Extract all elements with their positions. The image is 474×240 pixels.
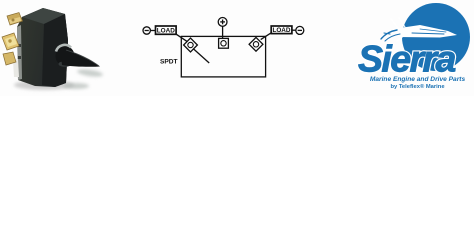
battery positive terminal (+) [218,18,227,27]
wire: left terminal to left load [151,30,156,32]
svg-text:LOAD: LOAD [157,28,175,35]
logo: white sterndrive sketch inside globe [391,18,457,41]
terminal A (left diamond terminal of switch) [184,38,198,52]
svg-text:SPDT: SPDT [160,59,178,66]
photo: left edge highlight strip of housing [17,25,22,80]
battery negative terminal (left) [143,27,150,34]
svg-text:Sierra: Sierra [358,38,455,80]
svg-text:®: ® [462,43,468,51]
photo: brass spade terminal (bottom) [3,52,16,65]
wire: positive terminal to common terminal B [222,26,224,38]
switch arm (common pole lever) [193,49,209,63]
photo: black toggle lever (bat handle) [61,50,100,67]
svg-text:by Teleflex® Marine: by Teleflex® Marine [390,83,445,90]
load L2 (right LOAD box) [271,26,292,34]
load L1 (left LOAD box) [156,26,177,34]
terminal C (right diamond terminal of switch) [249,37,263,51]
photo: switch body (dark housing) [17,8,68,87]
wire: terminal C to right load [261,33,272,40]
logo: blue globe disc [402,3,470,71]
wire: left load to terminal A [176,34,187,41]
svg-text:Marine Engine and Drive Parts: Marine Engine and Drive Parts [370,76,466,83]
logo: blue sketch strokes outside globe (boat stern) [381,30,400,41]
photo: chrome ring nut and bushing [56,45,75,67]
battery negative terminal (right) [296,26,304,34]
photo: drop shadow under switch body [14,68,103,90]
svg-text:LOAD: LOAD [272,27,290,34]
photo: brass spade terminal (middle) [2,33,19,50]
terminal B (center common terminal of switch) [219,38,229,48]
switch body outline (SPDT switch S1) [181,36,265,77]
photo: white insulator at lower left [13,59,19,77]
wire: right load to right terminal [292,29,296,31]
photo: brass spade terminal (top) [7,13,23,26]
